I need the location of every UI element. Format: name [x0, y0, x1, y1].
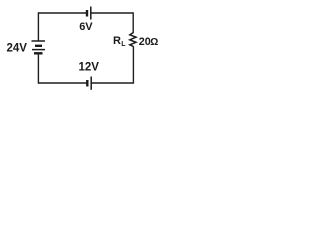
wire right vertical top [132, 12, 134, 33]
svg-text:20: 20 [139, 36, 151, 48]
svg-text:24V: 24V [7, 43, 28, 55]
wire top-right segment [91, 12, 133, 14]
wire bottom-left segment [38, 82, 87, 84]
battery V1 24V long plate 2 [32, 49, 45, 51]
wire left vertical bottom [37, 54, 39, 84]
battery V3 12V long thin plate [90, 77, 92, 90]
wire bottom-right segment [91, 82, 133, 84]
svg-text:L: L [121, 41, 126, 48]
battery V3 12V short thick plate [86, 80, 88, 87]
svg-text:R: R [113, 35, 121, 47]
svg-text:12V: 12V [79, 62, 100, 74]
wire top-left segment [38, 12, 86, 14]
wire left vertical top [37, 12, 39, 41]
battery V1 24V short thick plate 2 [34, 52, 43, 54]
resistor RL zigzag [130, 33, 136, 47]
svg-text:Ω: Ω [150, 37, 158, 48]
battery V1 24V short thick plate 1 [35, 45, 42, 47]
battery V2 6V long thin plate [90, 7, 92, 20]
battery V1 24V long plate 1 [32, 40, 46, 42]
battery V2 6V short thick plate [86, 10, 88, 17]
wire right vertical bottom [132, 46, 134, 83]
svg-text:6V: 6V [79, 21, 93, 33]
